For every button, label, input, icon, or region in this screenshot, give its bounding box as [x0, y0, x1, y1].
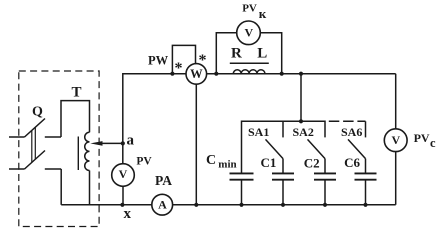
svg-text:min: min: [218, 158, 236, 170]
svg-text:L: L: [257, 46, 267, 62]
svg-text:к: к: [259, 6, 267, 21]
svg-text:SA2: SA2: [293, 125, 314, 139]
svg-text:R: R: [231, 46, 242, 62]
svg-text:a: a: [127, 133, 135, 149]
svg-text:C2: C2: [304, 156, 320, 171]
svg-text:C: C: [206, 153, 216, 168]
svg-text:Q: Q: [32, 105, 43, 120]
svg-text:PV: PV: [414, 131, 430, 145]
svg-text:C1: C1: [261, 155, 277, 170]
svg-text:*: *: [175, 60, 183, 77]
svg-text:x: x: [124, 206, 132, 222]
svg-text:PV: PV: [242, 3, 257, 15]
svg-text:PA: PA: [155, 173, 172, 188]
svg-text:SA6: SA6: [341, 125, 362, 139]
svg-text:PW: PW: [148, 53, 169, 67]
svg-text:V: V: [244, 26, 253, 40]
svg-text:V: V: [119, 167, 128, 181]
svg-text:c: c: [430, 136, 436, 150]
svg-text:SA1: SA1: [248, 125, 269, 139]
svg-text:V: V: [391, 133, 400, 147]
svg-text:A: A: [158, 197, 167, 211]
svg-text:PV: PV: [136, 155, 152, 167]
svg-text:T: T: [72, 85, 82, 101]
svg-text:C6: C6: [344, 155, 360, 170]
svg-text:W: W: [190, 67, 203, 81]
